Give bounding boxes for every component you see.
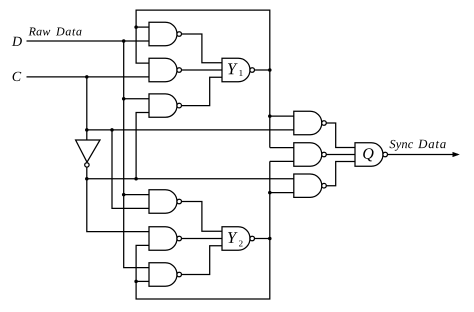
node Y1 to A1: [134, 25, 138, 29]
wire Y1 output: [254, 69, 269, 71]
wire Y2 to B3 input: [136, 280, 149, 282]
arrowhead: [453, 152, 460, 157]
node C branch to B1: [110, 128, 114, 132]
label Y2: [228, 232, 238, 243]
nand gate B2: [149, 227, 182, 250]
nand gate R1: [294, 111, 327, 134]
wire Y1 feedback loop top: [136, 10, 270, 148]
wire D vertical bus: [124, 41, 149, 268]
wire C vertical to inverter: [86, 77, 88, 140]
nand gate Y1: [222, 58, 255, 81]
wire D to A3 input: [124, 98, 149, 100]
wire C input line: [27, 76, 150, 78]
wire inverted clock up to A3 input: [136, 113, 149, 179]
wire C branch down to B1 input: [112, 130, 149, 209]
nand gate B1: [149, 190, 182, 213]
nand gate R3: [294, 174, 327, 197]
wire Y2 to R3 input: [270, 192, 294, 194]
wire Y1 to R1 input: [270, 115, 294, 117]
label Y1 subscript: [239, 70, 242, 76]
nand gate A2: [149, 58, 182, 81]
label Raw Data word2: [56, 28, 82, 36]
wire Y1 to A1 input: [136, 26, 149, 28]
node Y1 to R1: [268, 114, 272, 118]
node C clock branch: [85, 128, 89, 132]
wire R2 output to Q: [326, 154, 355, 156]
node C junction: [85, 75, 89, 79]
wire Y2 feedback to R2: [270, 160, 294, 162]
wire Q output with arrow: [388, 154, 459, 156]
nand gate Y2: [222, 227, 255, 250]
wire B1 output to Y2: [182, 202, 222, 232]
wire R3 output to Q: [326, 162, 355, 186]
node Y2 output junction: [268, 237, 272, 241]
nand gate B3: [149, 263, 182, 286]
wire Y2 output: [254, 238, 269, 240]
node Y2 to B3: [134, 280, 138, 284]
wire A2 output to Y1: [182, 69, 222, 71]
wire D input line: [27, 40, 150, 42]
nand gate A1: [149, 22, 182, 45]
node D to gate B1: [122, 193, 126, 197]
wire Y1 feedback to R2: [270, 147, 294, 149]
wire A3 output to Y1: [182, 77, 222, 105]
label C: [13, 72, 22, 81]
wire B3 output to Y2: [182, 246, 222, 275]
node D junction: [122, 39, 126, 43]
wire A1 output to Y1: [182, 34, 222, 63]
wire inverter output: [87, 167, 149, 232]
node Y2 to R3: [268, 191, 272, 195]
label Y1: [228, 63, 238, 74]
label Y2 subscript: [239, 240, 243, 246]
wire B2 output to Y2: [182, 238, 222, 240]
wire Y2 feedback loop bottom: [136, 161, 270, 299]
node Y1 output junction: [268, 68, 272, 72]
wire C clock line to R1: [87, 129, 294, 131]
label Q: [363, 148, 373, 161]
inverter U13: [76, 140, 100, 167]
nand gate A3: [149, 94, 182, 117]
nand gate Q: [355, 143, 388, 166]
node inverted clock branch: [85, 177, 89, 181]
label Sync Data word2: [418, 140, 446, 149]
wire R1 output to Q: [326, 123, 355, 148]
label Sync Data word1: [390, 140, 414, 151]
label Raw Data word1: [29, 28, 51, 36]
wire D to B1 input: [124, 194, 149, 196]
node inverted clock to A3: [134, 177, 138, 181]
nand gate R2: [294, 143, 327, 166]
label D: [12, 37, 22, 46]
wire inverted clock line to R3: [87, 178, 294, 180]
node D to gate A3: [122, 97, 126, 101]
